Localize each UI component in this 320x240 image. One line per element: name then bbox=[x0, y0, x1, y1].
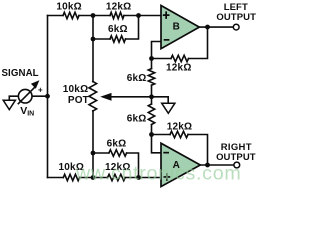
signal source VIN bbox=[18, 80, 40, 104]
node top-left junction bbox=[91, 13, 96, 18]
resistor 12k feedback B bbox=[171, 55, 189, 61]
wire: signal source to rail bbox=[32, 95, 47, 97]
op-amp A bbox=[161, 143, 200, 186]
svg-text:6kΩ: 6kΩ bbox=[127, 113, 147, 124]
svg-text:SIGNAL: SIGNAL bbox=[2, 68, 39, 79]
resistor 12k bottom bbox=[108, 174, 126, 180]
svg-text:+: + bbox=[38, 85, 43, 94]
node top-right junction bbox=[136, 13, 141, 18]
node bottom-left junction bbox=[91, 175, 96, 180]
resistor 6k upper vertical bbox=[148, 69, 154, 86]
svg-text:12kΩ: 12kΩ bbox=[106, 1, 132, 12]
resistor 10k top bbox=[63, 12, 79, 18]
resistor 12k feedback A bbox=[170, 131, 188, 137]
wire: op-amp B feedback row bbox=[152, 27, 208, 59]
wire: op-amp A feedback row bbox=[152, 135, 208, 166]
svg-text:VIN: VIN bbox=[20, 105, 34, 118]
wire: bottom row segments bbox=[48, 177, 163, 179]
wire: centre column through pot bbox=[92, 16, 94, 178]
node B feedback bbox=[149, 56, 154, 61]
wire: top row segments bbox=[48, 15, 162, 17]
svg-text:6kΩ: 6kΩ bbox=[108, 24, 128, 35]
wire: op-amp B inverting input bbox=[152, 42, 162, 59]
node A output bbox=[205, 163, 210, 168]
node 6k top junction bbox=[91, 37, 96, 42]
resistor 12k top bbox=[110, 12, 124, 18]
node wiper bbox=[149, 94, 154, 99]
potentiometer 10k element bbox=[89, 82, 97, 112]
node source tap bbox=[45, 94, 50, 99]
wire: left input rail bbox=[47, 16, 49, 178]
svg-text:B: B bbox=[173, 21, 180, 32]
node 6k bottom junction bbox=[91, 151, 96, 156]
wire: op-amp B output to terminal bbox=[200, 26, 233, 28]
ground at wiper node bbox=[162, 103, 175, 113]
resistor 6k bottom row bbox=[109, 150, 127, 156]
wire: signal source to ground bbox=[9, 96, 18, 100]
op-amp B bbox=[161, 6, 199, 49]
svg-text:6kΩ: 6kΩ bbox=[107, 139, 127, 150]
svg-text:OUTPUT: OUTPUT bbox=[216, 12, 256, 23]
potentiometer wiper arrow bbox=[100, 93, 111, 101]
resistor 6k lower vertical bbox=[148, 104, 154, 125]
svg-text:10kΩ: 10kΩ bbox=[56, 1, 82, 12]
terminal RIGHT OUTPUT bbox=[234, 162, 240, 168]
resistor 10k bottom bbox=[63, 174, 79, 180]
svg-text:12kΩ: 12kΩ bbox=[167, 121, 193, 132]
wire: op-amp A output to terminal bbox=[201, 164, 233, 166]
node A feedback bbox=[149, 132, 154, 137]
resistor 6k top row bbox=[110, 36, 126, 42]
wire: feedback column between 6k resistors bbox=[151, 59, 153, 135]
svg-text:ww.cntronics.com: ww.cntronics.com bbox=[75, 162, 241, 184]
terminal LEFT OUTPUT bbox=[233, 24, 239, 30]
svg-text:POT: POT bbox=[68, 95, 89, 106]
svg-text:12kΩ: 12kΩ bbox=[166, 63, 192, 74]
wire: op-amp A inverting input bbox=[152, 135, 163, 153]
ground at signal source bbox=[3, 100, 15, 109]
node bottom-right junction bbox=[136, 175, 141, 180]
svg-text:6kΩ: 6kΩ bbox=[127, 73, 147, 84]
wire: bottom 6k row with drop to bottom row bbox=[93, 153, 139, 178]
svg-text:10kΩ: 10kΩ bbox=[63, 84, 89, 95]
wire: ground stub at wiper node bbox=[152, 97, 169, 103]
wire: pot wiper to feedback column bbox=[111, 96, 152, 98]
node B output bbox=[205, 25, 210, 30]
wire: top 6k row with rise to top row bbox=[93, 16, 139, 40]
